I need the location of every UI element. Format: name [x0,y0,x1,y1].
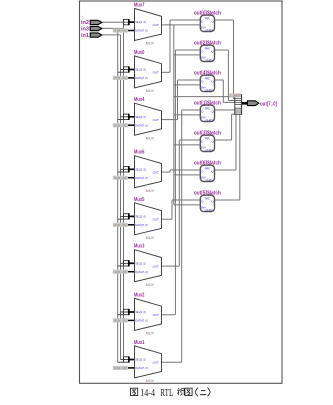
svg-text:I1[9..0]: I1[9..0] [114,319,127,323]
svg-text:OUT: OUT [153,71,159,75]
svg-text:I_NE0: I_NE0 [230,94,240,98]
svg-text:PRE: PRE [205,46,210,50]
svg-text:MUX: MUX [146,332,155,336]
svg-text:OUT: OUT [153,217,159,221]
svg-text:CLRN: CLRN [206,208,213,212]
svg-text:DATA[7..0]: DATA[7..0] [135,29,147,33]
svg-text:I1[9..0]: I1[9..0] [114,270,127,274]
svg-text:Mux1: Mux1 [134,340,145,346]
svg-text:MUX: MUX [146,189,155,193]
svg-text:I1[9..0]: I1[9..0] [114,223,127,227]
svg-text:SEL[2..0]: SEL[2..0] [135,115,145,119]
svg-text:DATA[7..0]: DATA[7..0] [135,76,147,80]
svg-text:14-4: 14-4 [140,388,155,399]
svg-text:PRE: PRE [205,196,210,200]
svg-text:OUT: OUT [153,264,159,268]
svg-text:CLRN: CLRN [206,88,213,92]
svg-text:PRE: PRE [205,106,210,110]
svg-text:PRE: PRE [205,136,210,140]
svg-text:Mux3: Mux3 [134,244,145,250]
svg-text:MUX: MUX [146,236,155,240]
svg-text:CLRN: CLRN [206,28,213,32]
svg-text:OUT: OUT [153,170,159,174]
svg-text:Mux0: Mux0 [134,50,145,56]
svg-text:SEL[2..0]: SEL[2..0] [135,167,145,171]
svg-text:SEL[2..0]: SEL[2..0] [135,68,145,72]
svg-text:MUX: MUX [146,136,155,140]
svg-text:Mux6: Mux6 [134,150,145,156]
svg-text:in1: in1 [81,33,89,39]
svg-text:I1[9..0]: I1[9..0] [114,176,127,180]
svg-text:OUT: OUT [153,361,159,365]
svg-text:CLRN: CLRN [206,148,213,152]
svg-text:Mux5: Mux5 [134,197,145,203]
svg-text:Mux4: Mux4 [134,97,145,103]
svg-text:PRE: PRE [205,76,210,80]
svg-text:CLRN: CLRN [206,118,213,122]
svg-text:MUX: MUX [146,89,155,93]
svg-text:DATA[7..0]: DATA[7..0] [135,176,147,180]
svg-text:MUX: MUX [146,379,155,383]
svg-text:PRE: PRE [205,16,210,20]
svg-text:in3: in3 [81,26,89,32]
svg-text:SEL[2..0]: SEL[2..0] [135,358,145,362]
svg-text:RTL: RTL [160,388,173,399]
svg-text:Mux7: Mux7 [134,3,145,9]
svg-text:OUT: OUT [153,23,159,27]
svg-text:OUT: OUT [153,118,159,122]
svg-text:SEL[2..0]: SEL[2..0] [135,310,145,314]
svg-text:SEL[2..0]: SEL[2..0] [135,215,145,219]
svg-text:DATA[7..0]: DATA[7..0] [135,319,147,323]
svg-text:I1[9..0]: I1[9..0] [114,366,127,370]
svg-text:I1[9..0]: I1[9..0] [114,76,127,80]
svg-text:Mux2: Mux2 [134,292,145,298]
svg-text:OUT: OUT [153,313,159,317]
svg-text:CLRN: CLRN [206,58,213,62]
svg-text:DATA[7..0]: DATA[7..0] [135,270,147,274]
svg-text:out[7..0]: out[7..0] [260,102,277,108]
svg-text:I1[9..0]: I1[9..0] [114,29,127,33]
svg-text:DATA[7..0]: DATA[7..0] [135,123,147,127]
svg-text:CLRN: CLRN [206,178,213,182]
svg-text:SEL[2..0]: SEL[2..0] [135,20,145,24]
svg-text:DATA[7..0]: DATA[7..0] [135,223,147,227]
svg-text:in2: in2 [81,20,89,26]
svg-text:DATA[7..0]: DATA[7..0] [135,366,147,370]
svg-text:PRE: PRE [205,166,210,170]
svg-text:I1[9..0]: I1[9..0] [114,123,127,127]
svg-text:MUX: MUX [146,283,155,287]
svg-text:SEL[2..0]: SEL[2..0] [135,261,145,265]
svg-text:MUX: MUX [146,42,155,46]
